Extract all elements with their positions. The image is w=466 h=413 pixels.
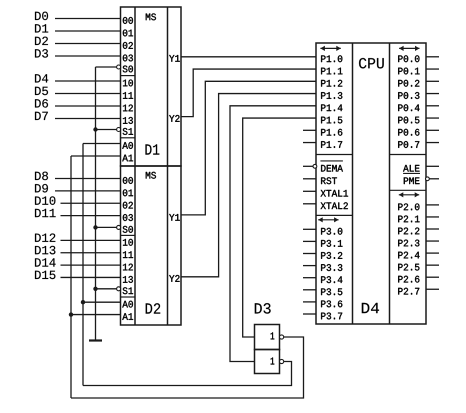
D1 pin label 10 xyxy=(123,80,133,87)
D2 section separator S1/A0 xyxy=(121,296,136,298)
D2 pin S1 inversion bubble xyxy=(117,287,121,291)
wire D6 to mux input xyxy=(55,105,121,107)
D4 divider left xyxy=(352,43,354,324)
designator D4 xyxy=(362,303,379,313)
stub wire pin P2.0 xyxy=(426,204,439,206)
D4 pin label P1.1 xyxy=(321,68,342,75)
D1 section separator S0/10 xyxy=(121,75,136,77)
stub wire pin XTAL2 xyxy=(303,203,316,205)
D4 pin label P0.3 xyxy=(398,92,419,99)
stub wire pin P0.5 xyxy=(426,117,439,119)
wire D1.S1 stub xyxy=(96,129,117,131)
inverter D3b label 1 xyxy=(271,358,275,365)
D1 inner divider left xyxy=(134,7,136,166)
wire A0 net vertical xyxy=(82,144,84,386)
D4 pin label P0.0 xyxy=(398,55,419,62)
wire D3 to mux input xyxy=(55,55,121,57)
D4 pin label P0.2 xyxy=(398,80,419,87)
D4 pin label P2.4 xyxy=(398,252,419,259)
net label D13 xyxy=(35,246,55,254)
wire D9 to mux input xyxy=(55,190,121,192)
wire D14 to mux input xyxy=(61,264,121,266)
D1 pin label A1 xyxy=(122,155,133,162)
D4 pin label ALE xyxy=(403,165,419,172)
D4 pin label P1.5 xyxy=(321,117,342,124)
net label D8 xyxy=(35,172,48,180)
wire D2.A1 stub xyxy=(71,314,121,316)
net label D1 xyxy=(35,24,48,32)
D4 pin label P2.5 xyxy=(398,264,419,271)
D1 function label MS xyxy=(146,13,156,20)
wire D2 to mux input xyxy=(55,43,121,45)
net label D12 xyxy=(35,233,55,241)
wire D2.Y1 to CPU P1.2 xyxy=(181,81,316,215)
wire CPU P1.5 to D3a input xyxy=(243,118,316,337)
net label D11 xyxy=(35,209,56,217)
wire D0 to mux input xyxy=(55,18,121,20)
stub wire pin P0.7 xyxy=(426,142,439,144)
stub wire pin P1.6 xyxy=(303,129,316,131)
D2 output label Y2 xyxy=(169,275,179,282)
stub wire pin P0.3 xyxy=(426,93,439,95)
net label D5 xyxy=(35,87,48,95)
stub wire pin P2.1 xyxy=(426,216,439,218)
D4 pin label P1.0 xyxy=(321,55,342,62)
wire A1 net vertical xyxy=(70,156,72,398)
wire D8 to mux input xyxy=(55,178,121,180)
ground xyxy=(89,339,102,341)
D4 pin label P3.3 xyxy=(321,264,342,271)
stub wire pin P2.2 xyxy=(426,228,439,230)
D4 pin label P1.6 xyxy=(321,129,342,136)
multiplexer D2 body xyxy=(121,166,182,325)
D2 pin S0 inversion bubble xyxy=(117,225,121,229)
net label D9 xyxy=(35,184,48,192)
D4 pin DEMA overline xyxy=(320,160,343,162)
net label D6 xyxy=(35,99,48,107)
wire D1.A0 stub xyxy=(83,143,121,145)
D2 pin label 13 xyxy=(123,276,133,283)
net label D14 xyxy=(35,258,56,266)
D2 section separator S0/10 xyxy=(121,234,136,236)
D4 pin label P1.7 xyxy=(321,141,342,148)
net label D2 xyxy=(35,37,48,45)
D4 pin label P3.4 xyxy=(321,276,342,283)
D2 inner divider right xyxy=(167,166,169,325)
D4 pin label P0.5 xyxy=(398,117,419,124)
wire D5 to mux input xyxy=(55,93,121,95)
D2 inner divider left xyxy=(134,166,136,325)
D4 left separator above DEMA xyxy=(316,154,353,156)
D4 right separator above P2 xyxy=(390,189,427,191)
D4 pin label XTAL1 xyxy=(321,190,348,197)
D1 inner divider right xyxy=(167,7,169,166)
D2 pin label 01 xyxy=(123,189,133,196)
D2 output label Y1 xyxy=(169,214,180,221)
D4 pin label P2.7 xyxy=(398,288,419,295)
net label D4 xyxy=(35,74,48,82)
wire D11 to mux input xyxy=(61,215,121,217)
wire D1.Y1 to CPU P1.0 xyxy=(181,56,316,58)
wire select net vertical xyxy=(95,67,97,340)
stub wire pin P2.5 xyxy=(426,264,439,266)
D2 function label MS xyxy=(146,172,156,179)
D4 DEMA inversion bubble xyxy=(313,164,317,168)
wire D1.Y2 to CPU P1.1 xyxy=(181,69,316,117)
D2 pin label 00 xyxy=(123,177,133,184)
D4 pin label P3.1 xyxy=(321,240,342,247)
D2 pin label 12 xyxy=(123,264,133,271)
D4 pin label P3.2 xyxy=(321,252,342,259)
stub wire pin P3.6 xyxy=(303,301,316,303)
D1 pin label S0 xyxy=(123,66,133,73)
D1 pin label 11 xyxy=(123,92,133,99)
D2 pin label 11 xyxy=(123,251,133,258)
wire D10 to mux input xyxy=(61,202,121,204)
D4 pin PME overline xyxy=(403,172,420,174)
wire CPU P1.4 to D3b input xyxy=(230,106,316,362)
designator D3 xyxy=(255,303,271,314)
net label D0 xyxy=(35,12,48,20)
junction D1.S1 xyxy=(93,127,97,131)
D4 pin label P1.4 xyxy=(321,104,342,111)
D2 pin label A0 xyxy=(122,301,133,308)
D1 pin label S1 xyxy=(123,128,133,135)
stub wire pin P2.4 xyxy=(426,252,439,254)
stub wire pin P2.3 xyxy=(426,240,439,242)
net label D7 xyxy=(35,112,48,120)
D1 pin label 03 xyxy=(123,55,133,62)
D4 pin label P0.1 xyxy=(398,68,419,75)
D4 pin label P2.0 xyxy=(398,203,419,210)
inverter D3b body xyxy=(255,350,280,374)
D1 output label Y2 xyxy=(169,115,179,122)
designator D1 xyxy=(145,144,159,154)
stub wire pin P3.2 xyxy=(303,253,316,255)
wire D2.S0 stub xyxy=(96,226,117,228)
D4 pin label P0.6 xyxy=(398,129,419,136)
stub wire pin P2.6 xyxy=(426,276,439,278)
D4 P3 port bidirectional arrow xyxy=(318,219,338,221)
wire D2.A0 stub xyxy=(83,301,121,303)
stub wire pin P3.4 xyxy=(303,277,316,279)
D4 pin label P3.0 xyxy=(321,228,342,235)
D2 pin label 03 xyxy=(123,214,133,221)
stub wire pin P2.7 xyxy=(426,288,439,290)
junction D2.S1 xyxy=(93,287,97,291)
D2 pin label S0 xyxy=(123,226,133,233)
D4 left separator above P3 xyxy=(316,214,353,216)
D1 pin label 01 xyxy=(123,30,133,37)
D1 pin S0 inversion bubble xyxy=(117,65,121,69)
stub wire pin P3.7 xyxy=(303,313,316,315)
D1 pin label A0 xyxy=(122,142,133,149)
D4 pin label P3.6 xyxy=(321,300,342,307)
CPU D4 body xyxy=(316,43,426,324)
D4 P0 port bidirectional arrow xyxy=(399,47,419,49)
wire D7 to mux input xyxy=(55,118,121,120)
D4 right separator above ALE xyxy=(390,154,427,156)
inverter D3a body xyxy=(255,325,280,350)
wire D1.S0 stub xyxy=(96,66,117,68)
stub wire pin P0.0 xyxy=(426,56,439,58)
D4 pin label P2.2 xyxy=(398,228,419,235)
wire D1.A1 stub xyxy=(71,155,121,157)
D1 pin label 00 xyxy=(123,17,133,24)
stub wire pin P0.6 xyxy=(426,129,439,131)
D4 pin label RST xyxy=(321,177,337,184)
CPU label xyxy=(359,58,384,69)
D4 pin label P2.1 xyxy=(398,216,419,223)
stub wire pin DEMA xyxy=(303,165,313,167)
stub wire pin P3.0 xyxy=(303,228,316,230)
D4 divider right xyxy=(389,43,391,324)
wire D15 to mux input xyxy=(61,276,121,278)
multiplexer D1 body xyxy=(121,7,182,166)
D4 pin label P3.5 xyxy=(321,288,342,295)
wire D4 to mux input xyxy=(55,80,121,82)
D4 pin label DEMA xyxy=(321,165,343,172)
wire D2.S1 stub xyxy=(96,288,117,290)
D4 pin label PME xyxy=(404,177,420,184)
D2 pin label A1 xyxy=(122,313,133,320)
D2 pin label 02 xyxy=(123,202,133,209)
stub wire pin P3.5 xyxy=(303,289,316,291)
wire D3b output loop xyxy=(83,362,292,386)
designator D2 xyxy=(146,303,161,313)
junction D2.A0 xyxy=(81,300,85,304)
D4 pin label P1.2 xyxy=(321,80,342,87)
stub wire pin P3.3 xyxy=(303,265,316,267)
D1 pin S1 inversion bubble xyxy=(117,128,121,132)
inverter D3b output bubble xyxy=(280,359,284,363)
wire D2.Y2 to CPU P1.3 xyxy=(181,94,316,277)
inverter D3a label 1 xyxy=(271,332,275,339)
stub wire pin XTAL1 xyxy=(303,190,316,192)
net label D15 xyxy=(35,271,55,279)
stub wire pin P1.7 xyxy=(303,142,316,144)
D1 section separator S1/A0 xyxy=(121,137,136,139)
D4 pin label P0.4 xyxy=(398,104,419,111)
net label D3 xyxy=(35,49,48,57)
D4 pin label P1.3 xyxy=(321,92,342,99)
D4 pin label P2.3 xyxy=(398,240,419,247)
wire D1 to mux input xyxy=(55,30,121,32)
D2 pin label 10 xyxy=(123,239,133,246)
D1 pin label 12 xyxy=(123,105,133,112)
D4 pin label XTAL2 xyxy=(321,202,348,209)
D1 output label Y1 xyxy=(169,55,180,62)
stub wire pin P0.2 xyxy=(426,80,439,82)
stub wire pin RST xyxy=(303,178,316,180)
stub wire pin ALE xyxy=(426,165,439,167)
stub wire pin P0.4 xyxy=(426,105,439,107)
wire D12 to mux input xyxy=(61,239,121,241)
D4 P1 port bidirectional arrow xyxy=(320,47,340,49)
D1 pin label 02 xyxy=(123,42,133,49)
D4 pin label P3.7 xyxy=(321,313,342,320)
wire D3a output loop xyxy=(71,337,304,398)
stub wire pin P3.1 xyxy=(303,240,316,242)
stub wire pin PME xyxy=(429,178,439,180)
D2 pin label S1 xyxy=(123,287,133,294)
wire D13 to mux input xyxy=(61,252,121,254)
D4 pin label P0.7 xyxy=(398,141,419,148)
junction D2.A1 xyxy=(69,312,73,316)
D4 P2 port bidirectional arrow xyxy=(399,194,419,196)
stub wire pin P0.1 xyxy=(426,68,439,70)
inverter D3a output bubble xyxy=(280,335,284,339)
D4 PME inversion bubble xyxy=(426,177,430,181)
junction D2.S0 xyxy=(93,225,97,229)
D4 pin label P2.6 xyxy=(398,276,419,283)
D1 pin label 13 xyxy=(123,117,133,124)
net label D10 xyxy=(35,196,55,204)
